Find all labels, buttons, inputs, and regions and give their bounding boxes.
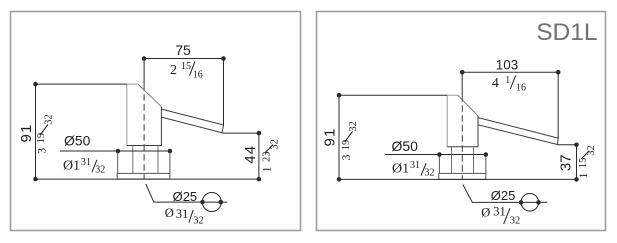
svg-text:Ø: Ø [165,206,174,220]
dimension 91 line right [339,95,447,179]
panel frame left [11,12,301,231]
svg-text:2: 2 [170,63,177,78]
svg-text:19: 19 [341,140,352,151]
svg-text:32: 32 [510,216,521,227]
svg-text:31: 31 [176,207,189,221]
svg-text:91: 91 [322,127,339,146]
svg-text:32: 32 [348,121,359,132]
stem lines right [452,147,474,174]
svg-text:Ø25: Ø25 [491,188,516,203]
svg-text:SD1L: SD1L [536,19,597,46]
flange right [439,173,486,179]
label 1 23/32 [262,139,281,172]
svg-text:91: 91 [18,123,35,142]
svg-text:1: 1 [505,75,510,86]
stem lines [133,146,158,174]
label 4 1/16 [492,75,526,94]
leader D25 [146,184,228,202]
dimension 75 line [144,59,223,126]
svg-text:32: 32 [270,139,281,149]
lever arm [162,109,224,133]
svg-text:16: 16 [516,82,526,93]
svg-text:3: 3 [36,148,48,154]
svg-text:32: 32 [586,145,597,156]
svg-text:31: 31 [81,157,91,168]
svg-text:4: 4 [492,76,499,91]
svg-text:Ø50: Ø50 [64,133,91,149]
svg-text:37: 37 [558,154,575,171]
svg-text:16: 16 [193,70,203,81]
label 2 15/16 [170,61,203,81]
dimension 103 line [462,72,558,138]
svg-text:Ø1: Ø1 [392,162,409,177]
dimension D50 leader [60,150,170,152]
label D1 31/32 right [392,160,435,179]
svg-text:31: 31 [493,205,506,219]
body outline right [447,95,478,147]
dimension 91 line [36,84,127,179]
dimension D50 leader right [385,154,486,156]
svg-text:32: 32 [193,216,204,227]
panel frame right [317,12,606,231]
circle symbol [202,193,221,212]
svg-text:103: 103 [496,58,519,73]
label 1 15/32 [578,145,597,178]
dimension 44 line [222,133,259,179]
svg-text:15: 15 [181,61,191,72]
svg-text:44: 44 [242,145,259,164]
lever arm right [478,118,558,145]
label 3 19/32 [36,114,54,153]
svg-text:1: 1 [262,166,274,172]
svg-text:Ø1: Ø1 [63,158,80,173]
svg-text:32: 32 [95,164,105,175]
svg-text:19: 19 [36,133,47,144]
svg-text:32: 32 [425,168,435,179]
svg-text:15: 15 [578,158,589,169]
svg-text:Ø: Ø [481,205,490,219]
centerline right [461,95,463,179]
flange [117,173,170,179]
svg-text:31: 31 [410,160,420,171]
centerline [143,84,145,179]
leader D25 right [463,185,547,203]
svg-text:3: 3 [341,154,353,160]
label D 31/32 right [481,205,520,227]
svg-text:Ø50: Ø50 [392,138,419,154]
svg-text:Ø25: Ø25 [173,189,198,204]
svg-text:1: 1 [578,172,590,178]
dimension 37 line [557,145,576,180]
body outline (handle base body) [127,84,162,145]
svg-text:23: 23 [262,152,273,163]
label D1 31/32 [63,157,105,176]
baseline right [339,178,577,180]
baseline [36,178,259,180]
label D 31/32 [165,206,204,226]
label 3 19/32 right [341,121,359,160]
svg-text:32: 32 [44,114,55,125]
circle symbol right [521,194,539,212]
svg-text:75: 75 [175,42,191,58]
